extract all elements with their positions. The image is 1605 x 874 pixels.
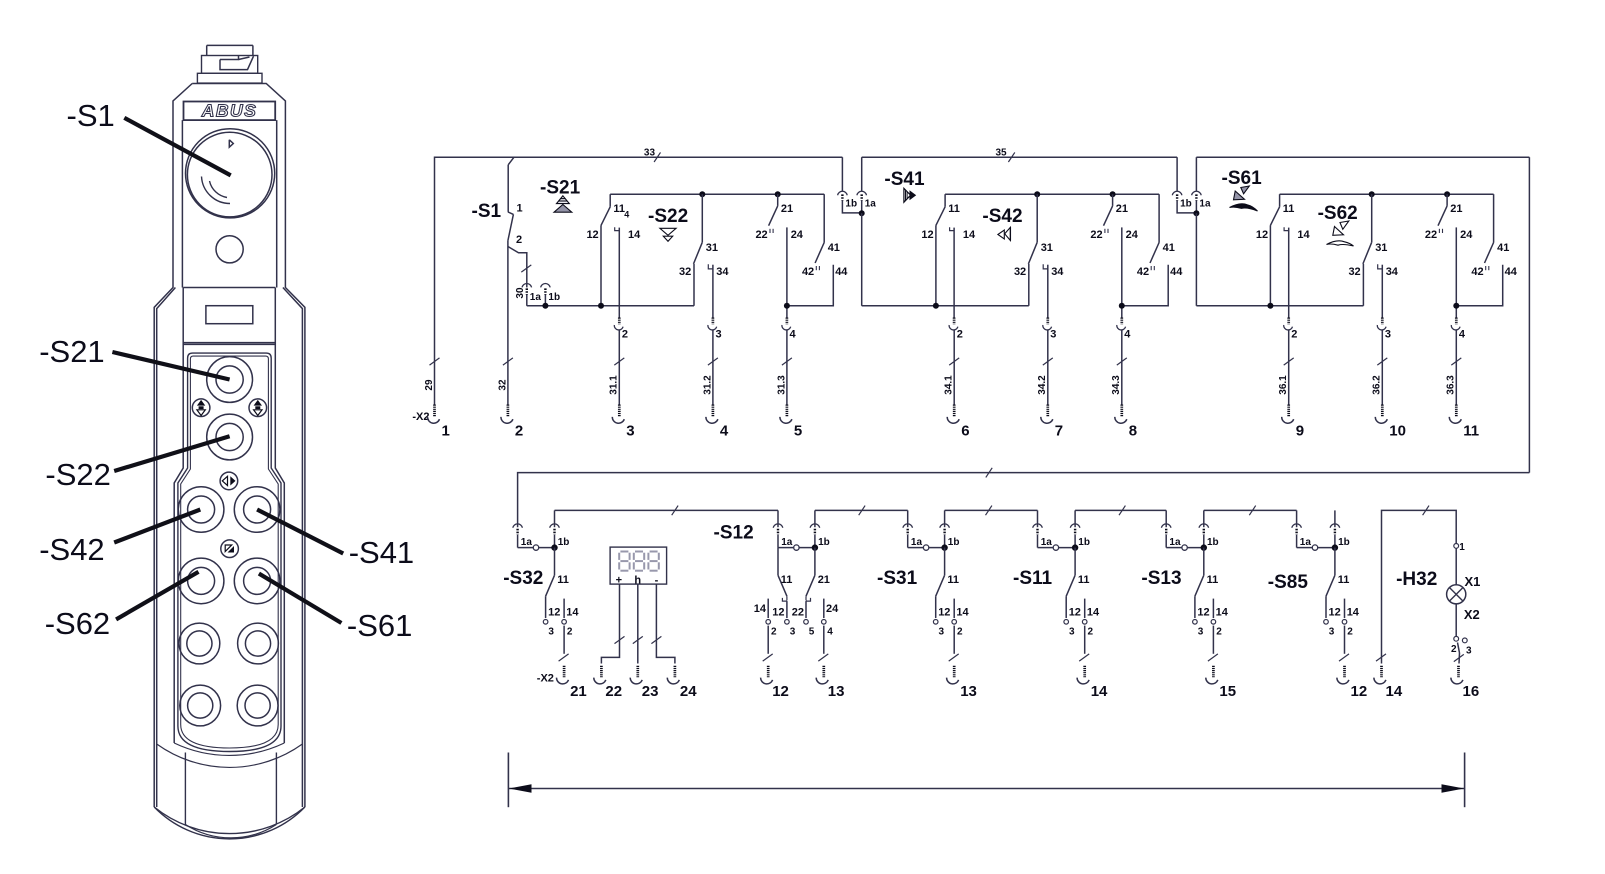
- wire -H32 loop: [1376, 506, 1456, 664]
- svg-text:32: 32: [679, 266, 691, 278]
- node boundary 1: [859, 210, 865, 216]
- svg-text:11: 11: [1463, 423, 1479, 440]
- svg-text:21: 21: [1116, 203, 1128, 215]
- slash lower feed bus: [986, 468, 992, 478]
- node -S32 1b: [551, 544, 557, 550]
- svg-text:24: 24: [680, 683, 697, 700]
- svg-text:24: 24: [1460, 229, 1473, 241]
- svg-text:14: 14: [1386, 683, 1403, 700]
- svg-text:1a: 1a: [911, 537, 923, 548]
- svg-text:1a: 1a: [781, 537, 793, 548]
- svg-text:14: 14: [956, 607, 969, 619]
- jumper circle -S13: [1182, 545, 1187, 550]
- svg-text:2: 2: [567, 627, 573, 638]
- pendant button row3 left: [179, 623, 220, 664]
- display -P1 digits: [619, 552, 659, 571]
- wire boundary 2 drop: [1195, 213, 1197, 306]
- terminal -X2:23: [630, 666, 658, 700]
- svg-text:12: 12: [921, 229, 933, 241]
- connector -S41 pin2: [949, 318, 963, 341]
- terminal -X2:12 under -S85: [1337, 654, 1367, 700]
- svg-text:31: 31: [1375, 242, 1387, 254]
- node bottom dot 12 s2: [933, 303, 939, 309]
- label X1: [1465, 574, 1481, 589]
- svg-text:21: 21: [570, 683, 587, 700]
- wire -S1 pin2 branch: [508, 241, 527, 331]
- terminal -X2:6 wire 34.1: [944, 331, 970, 440]
- switch -S22 contact 21-22/24: [755, 194, 803, 241]
- svg-text:42: 42: [1471, 266, 1483, 278]
- svg-text:44: 44: [1170, 266, 1183, 278]
- svg-text:-S61: -S61: [1222, 168, 1263, 189]
- terminal -X2:21 under -S32: [556, 654, 586, 700]
- svg-text:1: 1: [1459, 542, 1465, 553]
- svg-text:12: 12: [1069, 607, 1081, 619]
- svg-text:2: 2: [1291, 329, 1297, 341]
- pendant keypad panel: [178, 353, 281, 751]
- svg-text:31.3: 31.3: [776, 375, 787, 395]
- node -S13 1b: [1201, 544, 1207, 550]
- svg-text:4: 4: [1124, 329, 1131, 341]
- svg-text:24: 24: [791, 229, 804, 241]
- pendant button S22: [207, 414, 253, 460]
- node inner bus dot 21 s3: [1444, 191, 1450, 197]
- svg-text:13: 13: [828, 683, 845, 700]
- label -X2 lower: [537, 673, 554, 685]
- plug -S12:1b: [810, 510, 830, 548]
- pendant left-right icon: [220, 472, 238, 490]
- label -S21: [540, 178, 581, 199]
- svg-text:-S62: -S62: [45, 606, 110, 641]
- node bottom bus dot 24 s2: [1119, 303, 1125, 309]
- node bottom bus dot 24 s1: [784, 303, 790, 309]
- switch -S21 contact 31-32/34: [679, 194, 729, 278]
- leader line S41: [257, 510, 343, 554]
- svg-text:4: 4: [790, 329, 797, 341]
- svg-text:14: 14: [1091, 683, 1108, 700]
- svg-text:12: 12: [772, 607, 784, 619]
- terminal -X2:4 wire 31.2: [702, 331, 729, 440]
- wire -S41 pin12: [935, 225, 937, 305]
- svg-text:11: 11: [947, 574, 959, 586]
- leader line S61: [259, 574, 342, 623]
- pendant button row4 left: [180, 685, 221, 726]
- wire inner bus section 3: [1280, 193, 1494, 195]
- plug -S13:1a: [1161, 510, 1203, 548]
- svg-text:10: 10: [1389, 423, 1406, 440]
- svg-text:12: 12: [1197, 607, 1209, 619]
- node bottom dot 12 s1: [598, 303, 604, 309]
- label -S13: [1141, 568, 1181, 589]
- svg-text:-S62: -S62: [1318, 203, 1358, 224]
- net label 35: [996, 148, 1015, 162]
- label -S21: [39, 334, 104, 369]
- jumper circle -S11: [1053, 545, 1058, 550]
- plug -S32:1a: [513, 524, 555, 548]
- svg-text:2: 2: [515, 423, 523, 440]
- svg-text:41: 41: [1163, 242, 1175, 254]
- svg-text:34.3: 34.3: [1111, 375, 1122, 395]
- connector -S42 pin4: [1117, 318, 1132, 341]
- plug -H32 X1 pin1: [1454, 542, 1466, 553]
- terminal -X2:3 wire 31.1: [609, 331, 635, 440]
- label -S42: [982, 206, 1022, 227]
- dimension arrow left: [509, 784, 532, 792]
- pendant control device ABUS: [39, 45, 414, 838]
- terminal -X2:8 wire 34.3: [1111, 331, 1137, 440]
- label -S22: [648, 206, 688, 227]
- jumper circle -S31: [923, 545, 928, 550]
- switch -S1 label: [472, 201, 502, 222]
- terminal -X2:2 wire 32: [497, 331, 523, 440]
- plug boundary 1 1a: [857, 157, 876, 213]
- switch -S12 contact 21-22/24: [792, 548, 839, 654]
- node -S31 1b: [941, 544, 947, 550]
- svg-text:14: 14: [1087, 607, 1100, 619]
- wire -S61 pin32: [1362, 264, 1364, 306]
- svg-text:-S41: -S41: [884, 169, 925, 190]
- wire -S42 pin24: [1121, 227, 1123, 317]
- connector -S22 pin4: [782, 318, 797, 341]
- svg-text:-S22: -S22: [648, 206, 688, 227]
- svg-text:11: 11: [1338, 574, 1350, 586]
- pendant up-down icon left: [192, 399, 210, 417]
- plug -S1:1b: [541, 283, 560, 305]
- dimension end tick right: [1464, 753, 1466, 808]
- plug -S31:1b: [940, 510, 960, 548]
- terminal -X2:22: [594, 666, 622, 700]
- svg-text:-S42: -S42: [982, 206, 1022, 227]
- terminal -X2:16: [1451, 666, 1479, 700]
- pendant body outline: [154, 84, 305, 834]
- svg-text:-S42: -S42: [39, 532, 104, 567]
- pendant small round button: [216, 236, 243, 263]
- svg-text:14: 14: [1297, 229, 1310, 241]
- svg-text:22: 22: [605, 683, 622, 700]
- node inner bus dot 21 s2: [1110, 191, 1116, 197]
- connector -S62 pin4: [1451, 318, 1466, 341]
- plug -S11:1b: [1070, 510, 1090, 548]
- plug boundary 2 1b: [1172, 157, 1196, 213]
- svg-text:-S21: -S21: [540, 178, 581, 199]
- label -S22: [45, 457, 110, 492]
- svg-text:3: 3: [1050, 329, 1056, 341]
- svg-text:X1: X1: [1465, 574, 1481, 589]
- label -S61: [347, 608, 412, 643]
- pendant button row3 right: [238, 623, 279, 664]
- icon -S22 double down arrow: [660, 228, 676, 241]
- svg-text:12: 12: [938, 607, 950, 619]
- wire -S21 pin32: [693, 264, 695, 306]
- upper schematic: [412, 148, 1529, 473]
- svg-text:24: 24: [1126, 229, 1139, 241]
- pendant button S62: [178, 558, 224, 604]
- node -S11 1b: [1072, 544, 1078, 550]
- svg-text:1a: 1a: [1300, 537, 1312, 548]
- svg-text:34.1: 34.1: [944, 375, 955, 395]
- terminal -X2:7 wire 34.2: [1037, 331, 1063, 440]
- svg-text:42: 42: [802, 266, 814, 278]
- wire boundary 1 drop: [861, 213, 863, 306]
- icon -S41 fast arrows: [904, 188, 916, 202]
- svg-text:9: 9: [1296, 423, 1304, 440]
- wire bus segment after -S32: [555, 506, 779, 516]
- terminal -X2:1 wire 29: [424, 331, 450, 440]
- wire display pin -: [651, 584, 675, 663]
- pendant diagonal icon: [221, 540, 239, 558]
- svg-text:21: 21: [818, 574, 830, 586]
- svg-text:13: 13: [960, 683, 977, 700]
- svg-text:12: 12: [586, 229, 598, 241]
- switch -S42 contact 41-42/44: [1137, 194, 1183, 278]
- svg-text:31.2: 31.2: [702, 375, 713, 395]
- label -S11: [1013, 568, 1053, 589]
- svg-text:14: 14: [754, 603, 767, 615]
- svg-text:2: 2: [622, 329, 628, 341]
- leader line S62: [116, 572, 198, 620]
- switch -S13 contact: [1193, 548, 1229, 654]
- svg-text:1a: 1a: [865, 199, 877, 210]
- wire -S22 pin44: [787, 265, 833, 306]
- wire right frame edge: [1528, 157, 1530, 472]
- icon -S21 double up arrow: [554, 196, 572, 212]
- pendant body inner line: [157, 288, 303, 808]
- switch -S11 contact: [1064, 548, 1100, 654]
- svg-text:-S11: -S11: [1013, 568, 1053, 589]
- plug -S1:1a: [522, 283, 541, 305]
- svg-text:-S12: -S12: [714, 523, 754, 544]
- jumper circle -S12: [794, 545, 799, 550]
- svg-text:21: 21: [781, 203, 793, 215]
- pendant lower housing: [154, 743, 305, 839]
- svg-text:-S1: -S1: [472, 201, 502, 222]
- svg-text:2: 2: [771, 627, 777, 638]
- wire -S41 pin34: [1047, 265, 1049, 318]
- svg-text:12: 12: [1351, 683, 1368, 700]
- svg-text:11: 11: [1207, 574, 1219, 586]
- wire -S61 pin34: [1381, 265, 1383, 318]
- svg-text:14: 14: [628, 229, 641, 241]
- wire -S42 pin44: [1122, 265, 1168, 306]
- svg-text:31: 31: [706, 242, 718, 254]
- pendant display window: [206, 306, 253, 324]
- wire label 30: [515, 265, 531, 299]
- svg-text:-S31: -S31: [877, 568, 918, 589]
- plug boundary 2 1a: [1192, 157, 1211, 213]
- svg-text:44: 44: [1505, 266, 1518, 278]
- node boundary 2: [1193, 210, 1199, 216]
- svg-text:3: 3: [548, 627, 554, 638]
- svg-text:2: 2: [1088, 627, 1094, 638]
- svg-text:3: 3: [1198, 627, 1204, 638]
- svg-text:1a: 1a: [530, 292, 542, 303]
- icon -S62 trolley slow: [1327, 221, 1354, 246]
- node inner bus dot 31 s1: [699, 191, 705, 197]
- connector -S61 pin2: [1284, 318, 1298, 341]
- svg-text:32: 32: [1014, 266, 1026, 278]
- wire display pin h: [633, 584, 643, 663]
- svg-text:23: 23: [642, 683, 659, 700]
- wire -S21 pin34: [712, 265, 714, 318]
- pendant up-down icon right: [249, 399, 267, 417]
- svg-text:11: 11: [948, 203, 960, 215]
- svg-text:2: 2: [516, 234, 522, 246]
- svg-text:-S41: -S41: [349, 535, 414, 570]
- plug -S12:1a: [773, 510, 815, 548]
- svg-text:-S85: -S85: [1268, 572, 1309, 593]
- svg-text:-S1: -S1: [67, 98, 115, 133]
- pendant emergency stop button S1: [186, 129, 275, 218]
- switch -S22 contact 41-42/44: [802, 194, 848, 278]
- pendant button S41: [234, 487, 280, 533]
- svg-text:36.1: 36.1: [1278, 375, 1289, 395]
- svg-text:2: 2: [1451, 644, 1457, 655]
- svg-text:1b: 1b: [1078, 537, 1090, 548]
- plug -S31:1a: [903, 510, 945, 548]
- wire bottom bus section 3: [1196, 305, 1363, 307]
- node -S85 1b: [1332, 544, 1338, 550]
- plug -H32 X2 pin2: [1451, 636, 1459, 655]
- label -H32: [1396, 569, 1437, 590]
- terminal -X2:5 wire 31.3: [776, 331, 802, 440]
- svg-text:34: 34: [1386, 266, 1399, 278]
- svg-text:22: 22: [1090, 229, 1102, 241]
- terminal -X2:13 under -S31: [947, 654, 977, 700]
- leader line S21: [112, 352, 229, 380]
- label -S62: [1318, 203, 1358, 224]
- switch -S41 contact 11-12/14: [921, 194, 976, 241]
- svg-text:3: 3: [1069, 627, 1075, 638]
- svg-text:-S21: -S21: [39, 334, 104, 369]
- label X2: [1464, 607, 1480, 622]
- svg-text:3: 3: [939, 627, 945, 638]
- label -X2 upper: [412, 411, 429, 423]
- switch -S41 contact 31-32/34: [1014, 194, 1064, 278]
- svg-text:-S22: -S22: [45, 457, 110, 492]
- switch -S62 contact 41-42/44: [1471, 194, 1517, 278]
- wire -S41 pin32: [1028, 264, 1030, 306]
- terminal -X2:24: [667, 666, 697, 700]
- wire bus segment after -S31: [945, 506, 1038, 516]
- svg-text:14: 14: [566, 607, 579, 619]
- node bottom dot 12 s3: [1267, 303, 1273, 309]
- svg-text:-S61: -S61: [347, 608, 412, 643]
- svg-text:11: 11: [1283, 203, 1295, 215]
- wire top bus section 2 (net 35): [862, 156, 1177, 158]
- svg-text:4: 4: [624, 210, 629, 220]
- dimension line body: [508, 788, 1464, 790]
- label -S42: [39, 532, 104, 567]
- svg-text:1b: 1b: [948, 537, 960, 548]
- svg-text:31.1: 31.1: [609, 375, 620, 395]
- wire -S21 pin14: [618, 228, 620, 318]
- pendant cap third tier: [197, 73, 262, 83]
- wire top bus section 1 (net 33): [435, 157, 843, 330]
- plug -S11:1a: [1033, 510, 1075, 548]
- connector -S61 pin3: [1377, 318, 1391, 341]
- pendant button S61: [234, 558, 280, 604]
- net label 33: [644, 148, 661, 162]
- node bottom dot 1b s1: [542, 303, 548, 309]
- dimension end tick left: [507, 753, 509, 808]
- svg-text:2: 2: [1347, 627, 1353, 638]
- pendant button S42: [178, 487, 224, 533]
- pendant button row4 right: [237, 685, 278, 726]
- svg-text:44: 44: [835, 266, 848, 278]
- label -S12: [714, 523, 754, 544]
- svg-text:41: 41: [828, 242, 840, 254]
- terminal -X2:10 wire 36.2: [1372, 331, 1406, 440]
- svg-text:12: 12: [1329, 607, 1341, 619]
- svg-text:1b: 1b: [548, 292, 560, 303]
- svg-text:34.2: 34.2: [1037, 375, 1048, 395]
- wire top bus section 3: [1196, 156, 1529, 158]
- label -S41: [884, 169, 925, 190]
- switch -S32 contact: [543, 548, 579, 654]
- leader line S42: [114, 510, 200, 543]
- svg-text:3: 3: [716, 329, 722, 341]
- wire -S21 pin12: [600, 225, 602, 305]
- wire -S61 pin12: [1269, 225, 1271, 305]
- svg-text:35: 35: [996, 148, 1008, 159]
- svg-text:4: 4: [720, 423, 729, 440]
- pendant button S21: [207, 357, 253, 403]
- switch -S42 contact 21-22/24: [1090, 194, 1138, 241]
- svg-text:6: 6: [961, 423, 969, 440]
- wire from lamp: [1455, 604, 1457, 637]
- node inner bus dot 31 s3: [1369, 191, 1375, 197]
- plug -H32 X2 pin3: [1462, 638, 1472, 657]
- svg-text:36.3: 36.3: [1446, 375, 1457, 395]
- switch -S21 contact 11-12/14: [586, 194, 641, 241]
- wire -H32 to terminal: [1454, 643, 1464, 664]
- svg-text:11: 11: [1078, 574, 1090, 586]
- svg-text:11: 11: [557, 574, 569, 586]
- svg-text:8: 8: [1129, 423, 1137, 440]
- lamp -H32: [1447, 585, 1466, 604]
- connector -S41 pin3: [1043, 318, 1057, 341]
- label -S61: [1222, 168, 1263, 189]
- svg-text:21: 21: [1450, 203, 1462, 215]
- plug -S85:1a: [1292, 510, 1335, 548]
- pendant cap second tier with clip: [202, 56, 258, 74]
- svg-text:1a: 1a: [521, 537, 533, 548]
- wire bottom bus section 1: [527, 305, 694, 307]
- svg-text:22: 22: [755, 229, 767, 241]
- svg-text:14: 14: [1347, 607, 1360, 619]
- pendant face strip sides: [174, 288, 284, 744]
- pendant face plate upper section: [182, 120, 276, 344]
- dimension line: [508, 753, 1464, 808]
- svg-text:2: 2: [1216, 627, 1222, 638]
- svg-text:22: 22: [1425, 229, 1437, 241]
- svg-text:1b: 1b: [1180, 199, 1192, 210]
- switch -S1 contact: [508, 203, 523, 247]
- svg-text:X2: X2: [1464, 607, 1480, 622]
- plug -S85:1b: [1330, 510, 1350, 548]
- svg-text:30: 30: [515, 287, 526, 299]
- node inner bus dot 21 s1: [775, 191, 781, 197]
- wire bus segment after -S11: [1075, 506, 1166, 516]
- svg-text:-S32: -S32: [503, 568, 543, 589]
- wire -S22 pin24: [786, 227, 788, 317]
- wire lower feed bus: [518, 473, 1530, 528]
- terminal -X2:11 wire 36.3: [1446, 331, 1479, 440]
- icon -S42 slow arrows: [998, 227, 1011, 240]
- svg-text:3: 3: [1385, 329, 1391, 341]
- svg-text:16: 16: [1463, 683, 1480, 700]
- svg-text:7: 7: [1055, 423, 1063, 440]
